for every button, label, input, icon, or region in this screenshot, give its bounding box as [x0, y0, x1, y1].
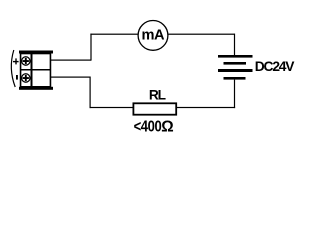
terminal block body outline: [21, 54, 51, 87]
terminal block vertical divider: [31, 54, 33, 87]
screw terminal bottom: [22, 74, 30, 82]
svg-text:mA: mA: [142, 28, 165, 44]
wire: block top to riser: [50, 60, 91, 61]
terminal block bottom bar: [19, 87, 53, 90]
battery plate long 2: [218, 69, 253, 72]
battery BT1: [218, 55, 253, 80]
battery plate short 1: [224, 62, 247, 65]
wire: meter to battery top corner: [168, 34, 234, 35]
svg-text:DC24V: DC24V: [255, 59, 295, 74]
wire: block bottom to riser: [50, 77, 90, 78]
plus label: [13, 58, 19, 64]
svg-text:Ω: Ω: [161, 118, 173, 135]
screw terminal top: [22, 57, 30, 65]
wire: left riser down: [90, 77, 91, 109]
wire: resistor to battery bottom corner: [177, 107, 235, 108]
wire: bottom run to resistor: [90, 107, 134, 108]
svg-text:RL: RL: [149, 88, 166, 103]
terminal block TB1: [19, 51, 53, 90]
resistor RL box: [133, 103, 176, 114]
terminal block top bar: [19, 51, 53, 54]
wire: left riser up: [90, 34, 91, 61]
milliammeter M1 circle: [138, 21, 168, 51]
minus label (vertical tick): [16, 75, 18, 80]
wire: battery bottom drop: [234, 80, 235, 109]
wire: battery top drop: [234, 34, 235, 56]
bracket (: [11, 50, 15, 87]
wire: top run to meter: [90, 34, 137, 35]
battery plate long 1: [218, 55, 253, 58]
terminal block horizontal divider: [20, 69, 51, 71]
svg-text:<400: <400: [134, 118, 162, 136]
battery plate short 2: [224, 77, 246, 80]
